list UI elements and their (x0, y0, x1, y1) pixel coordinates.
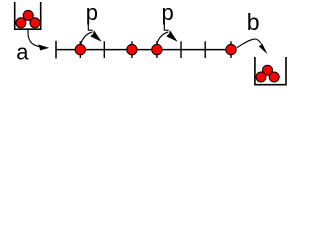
tick 5 (156, 41, 158, 58)
tick 7 (204, 41, 206, 58)
p2 stem elbow (164, 24, 168, 30)
dot on line pos 4 (127, 44, 137, 54)
arrowhead b (259, 43, 268, 54)
p1 stem elbow (88, 24, 92, 30)
tick 3 (103, 41, 105, 58)
ball right-box top (263, 65, 273, 75)
ball left-box bottom-right (30, 18, 40, 28)
arrow a: curve from box bottom to line start (28, 30, 42, 47)
ball right-box bottom-right (269, 72, 279, 82)
ball left-box bottom-left (16, 18, 26, 28)
number line (56, 49, 233, 51)
arrowhead a (38, 44, 49, 50)
left container box (open top) (15, 2, 41, 29)
arrow p2 arc (157, 32, 168, 44)
tick 4 (131, 41, 133, 58)
dot on line pos 2 (75, 44, 85, 54)
tick 6 (180, 41, 182, 58)
right container box (open top) (255, 57, 286, 85)
dot on line pos 5 (152, 44, 162, 54)
ball right-box bottom-left (256, 72, 266, 82)
tick 8 (230, 41, 232, 58)
svg-text:p: p (86, 0, 98, 25)
tick 1 (line start) (55, 41, 57, 59)
arrow p1 arc (81, 32, 92, 44)
svg-text:a: a (16, 40, 29, 65)
svg-text:p: p (162, 0, 174, 25)
svg-text:b: b (247, 9, 260, 35)
ball left-box top (23, 10, 33, 20)
tick 2 (79, 41, 81, 58)
arrow b: curve from last dot to right box (237, 39, 261, 48)
arrowhead p2 (166, 30, 177, 42)
dot on line pos 8 (226, 44, 236, 54)
arrowhead p1 (90, 30, 101, 42)
